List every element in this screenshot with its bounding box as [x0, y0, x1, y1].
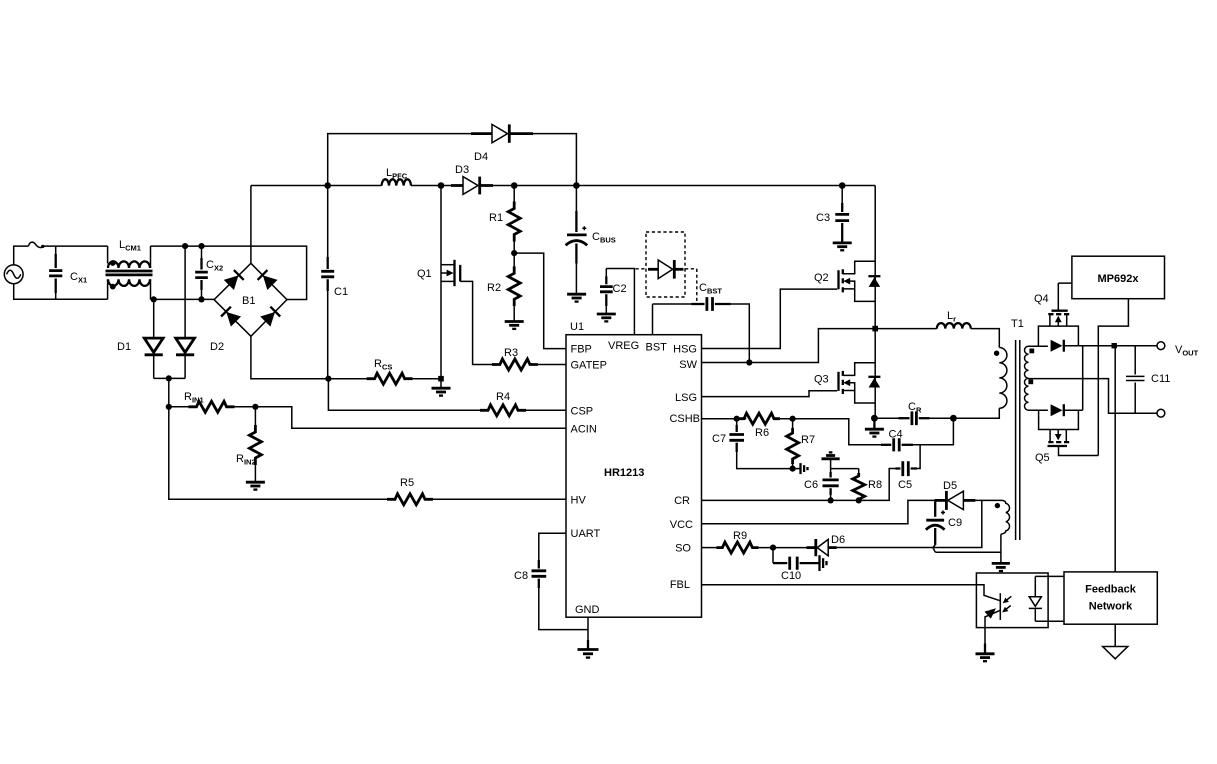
svg-text:Q2: Q2 [814, 272, 829, 284]
node RCS left / C1 bottom [325, 376, 331, 382]
capacitor C6 [804, 472, 839, 500]
capacitor C1 [321, 186, 348, 379]
terminal Vout- [1157, 409, 1165, 417]
svg-text:C11: C11 [1151, 373, 1170, 385]
svg-text:FBP: FBP [571, 344, 592, 356]
svg-text:R3: R3 [504, 347, 518, 359]
capacitor C8 [514, 533, 588, 629]
resistor R9 [716, 530, 806, 553]
resistor R4 [480, 391, 566, 416]
capacitor CX2 [195, 246, 223, 299]
resistor R3 [492, 347, 566, 370]
wire Vout sense [1114, 346, 1116, 572]
wire secondary top to rectifier [1029, 345, 1048, 347]
wire GND pin [587, 617, 589, 640]
svg-text:D3: D3 [455, 164, 469, 176]
svg-text:FBL: FBL [670, 579, 690, 591]
svg-text:C6: C6 [804, 479, 818, 491]
transistor Q4 [1034, 283, 1078, 346]
svg-text:UART: UART [571, 528, 601, 540]
svg-text:D6: D6 [831, 534, 845, 546]
diode D4 [471, 124, 533, 163]
svg-text:C1: C1 [334, 286, 348, 298]
capacitor C11 [1126, 346, 1170, 414]
node CX2 bottom [198, 296, 204, 302]
wire VREG to C2 [606, 269, 634, 335]
capacitor C9 electrolytic [926, 500, 962, 552]
svg-text:GND: GND [575, 604, 600, 616]
wire SO net to D5 anode [837, 500, 982, 547]
svg-text:LSG: LSG [675, 392, 697, 404]
transistor Q1 [417, 186, 460, 379]
svg-text:HV: HV [571, 495, 587, 507]
wire CR row [702, 469, 896, 501]
svg-text:MP692x: MP692x [1098, 273, 1140, 285]
svg-text:R6: R6 [755, 427, 769, 439]
ground U1 GND [578, 650, 599, 658]
wire RIN1 to ACIN jog [255, 407, 566, 429]
svg-text:C4: C4 [889, 429, 903, 441]
wire HV row [169, 407, 387, 500]
wire CSHB row [702, 419, 882, 445]
diode D6 [807, 534, 846, 556]
ground C6 flipped [822, 452, 840, 472]
svg-text:SW: SW [679, 359, 697, 371]
capacitor C7 [712, 419, 793, 469]
capacitor C3 [816, 186, 849, 243]
svg-text:R1: R1 [489, 212, 503, 224]
wire bottom AC to bridge [151, 298, 215, 300]
svg-text:Network: Network [1089, 601, 1133, 613]
body diode Q3 [868, 377, 880, 388]
wire top AC to bridge [151, 246, 307, 299]
svg-text:SO: SO [675, 543, 691, 555]
capacitor CR resonant [874, 401, 953, 425]
node CR C6 tap [828, 497, 834, 503]
node CX2 top [198, 243, 204, 249]
IC U1 HR1213 [566, 321, 702, 617]
wire FBP link [514, 253, 566, 349]
svg-text:C9: C9 [948, 517, 962, 529]
diode rectifier bottom [1051, 404, 1083, 416]
node half-bridge midpoint [872, 326, 878, 332]
capacitor C2 [600, 269, 627, 314]
inductor LPFC [382, 167, 411, 186]
diode bootstrap (in dashed box) [648, 260, 684, 279]
transformer T1 secondary [1025, 346, 1035, 410]
resistor R8 [853, 469, 882, 503]
node CR/C4/primary junction [950, 415, 957, 422]
wire center tap [1029, 379, 1158, 414]
svg-text:R9: R9 [733, 530, 747, 542]
wire bridge plus to bus [250, 186, 252, 264]
wire LSG to Q3 gate [702, 391, 838, 397]
wire C9 minus to aux ground [935, 551, 1001, 553]
capacitor C4 [881, 418, 953, 451]
node SW-CBST junction [746, 359, 752, 365]
fuse F1 [29, 242, 44, 247]
node SO C10 tap [770, 545, 776, 551]
wire opto to feedback network [1035, 576, 1064, 621]
node RIN1 left [166, 404, 172, 410]
svg-text:ACIN: ACIN [571, 424, 597, 436]
ground Q3 source [873, 418, 875, 428]
wire SW row [702, 329, 876, 363]
diode rectifier top [1051, 340, 1158, 352]
svg-text:CSP: CSP [571, 406, 594, 418]
ground R2 [505, 322, 524, 329]
svg-text:VCC: VCC [670, 519, 693, 531]
svg-text:CSHB: CSHB [669, 413, 700, 425]
svg-text:T1: T1 [1011, 318, 1024, 330]
resistor RIN2 [236, 407, 261, 482]
ground C3 [833, 243, 852, 250]
transformer T1 primary [953, 318, 1023, 418]
ground CBUS [567, 294, 586, 301]
svg-text:C7: C7 [712, 433, 726, 445]
resistor R7 [787, 419, 815, 469]
svg-text:VREG: VREG [608, 340, 639, 352]
ground RIN2 [246, 482, 265, 489]
capacitor CBUS [566, 186, 616, 294]
diode D2 [176, 246, 224, 378]
capacitor C10 [773, 548, 819, 582]
svg-text:C10: C10 [781, 570, 801, 582]
transistor Q5 [1035, 410, 1098, 464]
svg-text:R8: R8 [868, 479, 882, 491]
wire C6-R8 top link [831, 468, 859, 470]
node D1-D2 [166, 375, 172, 381]
diode D3 [451, 164, 493, 194]
transformer T1 aux winding [995, 500, 1010, 563]
diode D1 [117, 299, 163, 378]
node D2 tap [182, 243, 188, 249]
svg-text:D1: D1 [117, 341, 131, 353]
node bus R1 tap [511, 182, 518, 189]
wire D4 bypass branch [328, 134, 577, 186]
wire fuse to choke [43, 245, 107, 247]
svg-text:C8: C8 [514, 570, 528, 582]
svg-text:Q4: Q4 [1034, 293, 1049, 305]
node bus CBUS/D4 [573, 182, 580, 189]
ground C10 sideways [820, 555, 827, 571]
capacitor CX1 [49, 246, 87, 299]
wire HV bus [251, 185, 875, 187]
svg-text:R4: R4 [496, 391, 510, 403]
node RIN1 right [252, 404, 258, 410]
AC source V1 [4, 265, 23, 284]
svg-text:Q5: Q5 [1035, 452, 1050, 464]
wire SO row [702, 547, 717, 549]
wire VCC row [702, 500, 935, 523]
wire CSP drop [328, 379, 480, 411]
node bus C3 tap [839, 182, 846, 189]
terminal Vout+ [1157, 342, 1165, 350]
wire MP692x to Q5 gate [1098, 299, 1128, 456]
node CR R8 tap [856, 497, 862, 503]
node R7/C7 ground [790, 466, 796, 472]
resistor RCS [328, 358, 441, 384]
resistor RIN1 [169, 391, 256, 412]
wire FBL row [702, 584, 977, 586]
wire bridge minus to RCS node [251, 336, 329, 378]
wire D1-D2 join [154, 377, 185, 379]
svg-text:Feedback: Feedback [1085, 584, 1137, 596]
wire down to RIN1 [168, 378, 170, 406]
svg-text:U1: U1 [570, 321, 584, 333]
svg-text:D5: D5 [943, 480, 957, 492]
earth terminal feedback [1103, 624, 1128, 659]
wire half-bridge rail [874, 186, 876, 419]
block MP692x [1072, 256, 1165, 299]
wire BST pin [652, 304, 654, 335]
dashed wire diode box to BST net [685, 269, 697, 302]
resistor R2 [487, 253, 520, 321]
body diode Q2 [868, 276, 880, 287]
node bus C1/D4 tap [324, 182, 331, 189]
svg-text:CR: CR [674, 495, 690, 507]
node Q3 source / CR left [871, 415, 878, 422]
resistor R5 [387, 477, 566, 505]
capacitor CBST [653, 282, 750, 363]
svg-text:Q3: Q3 [814, 374, 829, 386]
node R1/R2 divider [511, 250, 517, 256]
capacitor C5 [896, 445, 921, 491]
svg-text:D2: D2 [210, 341, 224, 353]
transistor Q2 [814, 261, 875, 301]
ground R7 sideways [793, 468, 800, 470]
wire lower rectifier to Vout row [1082, 346, 1084, 411]
node bus Q1 drain [438, 182, 445, 189]
dashed box optional boost diode [646, 232, 685, 297]
ground opto emitter [984, 644, 986, 654]
svg-text:HR1213: HR1213 [604, 467, 644, 479]
svg-text:C5: C5 [898, 479, 912, 491]
svg-text:R7: R7 [801, 434, 815, 446]
inductor Lr [875, 310, 999, 348]
wire secondary bottom to rectifier [1029, 409, 1048, 411]
svg-text:BST: BST [646, 342, 668, 354]
diode D5 [935, 480, 976, 510]
resistor R6 [738, 413, 780, 439]
svg-text:D4: D4 [474, 151, 488, 163]
dashed wire VREG to diode box [636, 268, 647, 270]
transistor Q3 [814, 363, 875, 403]
svg-text:R5: R5 [400, 477, 414, 489]
wire D5 anode to aux winding [975, 499, 1002, 501]
svg-text:B1: B1 [242, 295, 255, 307]
svg-text:Q1: Q1 [417, 268, 432, 280]
svg-text:C3: C3 [816, 212, 830, 224]
wire AC neutral bottom [14, 284, 108, 300]
wire HSG to Q2 gate [702, 289, 838, 348]
transformer T1 core [1016, 340, 1020, 540]
ground C2 [597, 314, 616, 321]
bridge rectifier B1 [214, 263, 287, 336]
node Q1 source / RCS right [438, 376, 444, 382]
svg-text:HSG: HSG [673, 344, 697, 356]
opto LED [1029, 576, 1042, 621]
wire Q1 gate to R3 [460, 281, 498, 364]
resistor R1 [489, 186, 520, 254]
node choke bottom junction [151, 296, 157, 302]
svg-text:GATEP: GATEP [571, 360, 607, 372]
wire AC live top [14, 246, 29, 265]
ground Q1 source [440, 379, 442, 388]
node CSHB R7 tap [790, 416, 796, 422]
optocoupler U2 [976, 573, 1048, 644]
common-mode choke LCM1 [106, 239, 153, 299]
node CSHB C7 tap [734, 416, 740, 422]
node Vout [1112, 343, 1117, 348]
ground aux winding [992, 563, 1010, 571]
svg-text:C2: C2 [613, 283, 627, 295]
feedback network block [1064, 572, 1157, 624]
svg-text:R2: R2 [487, 282, 501, 294]
